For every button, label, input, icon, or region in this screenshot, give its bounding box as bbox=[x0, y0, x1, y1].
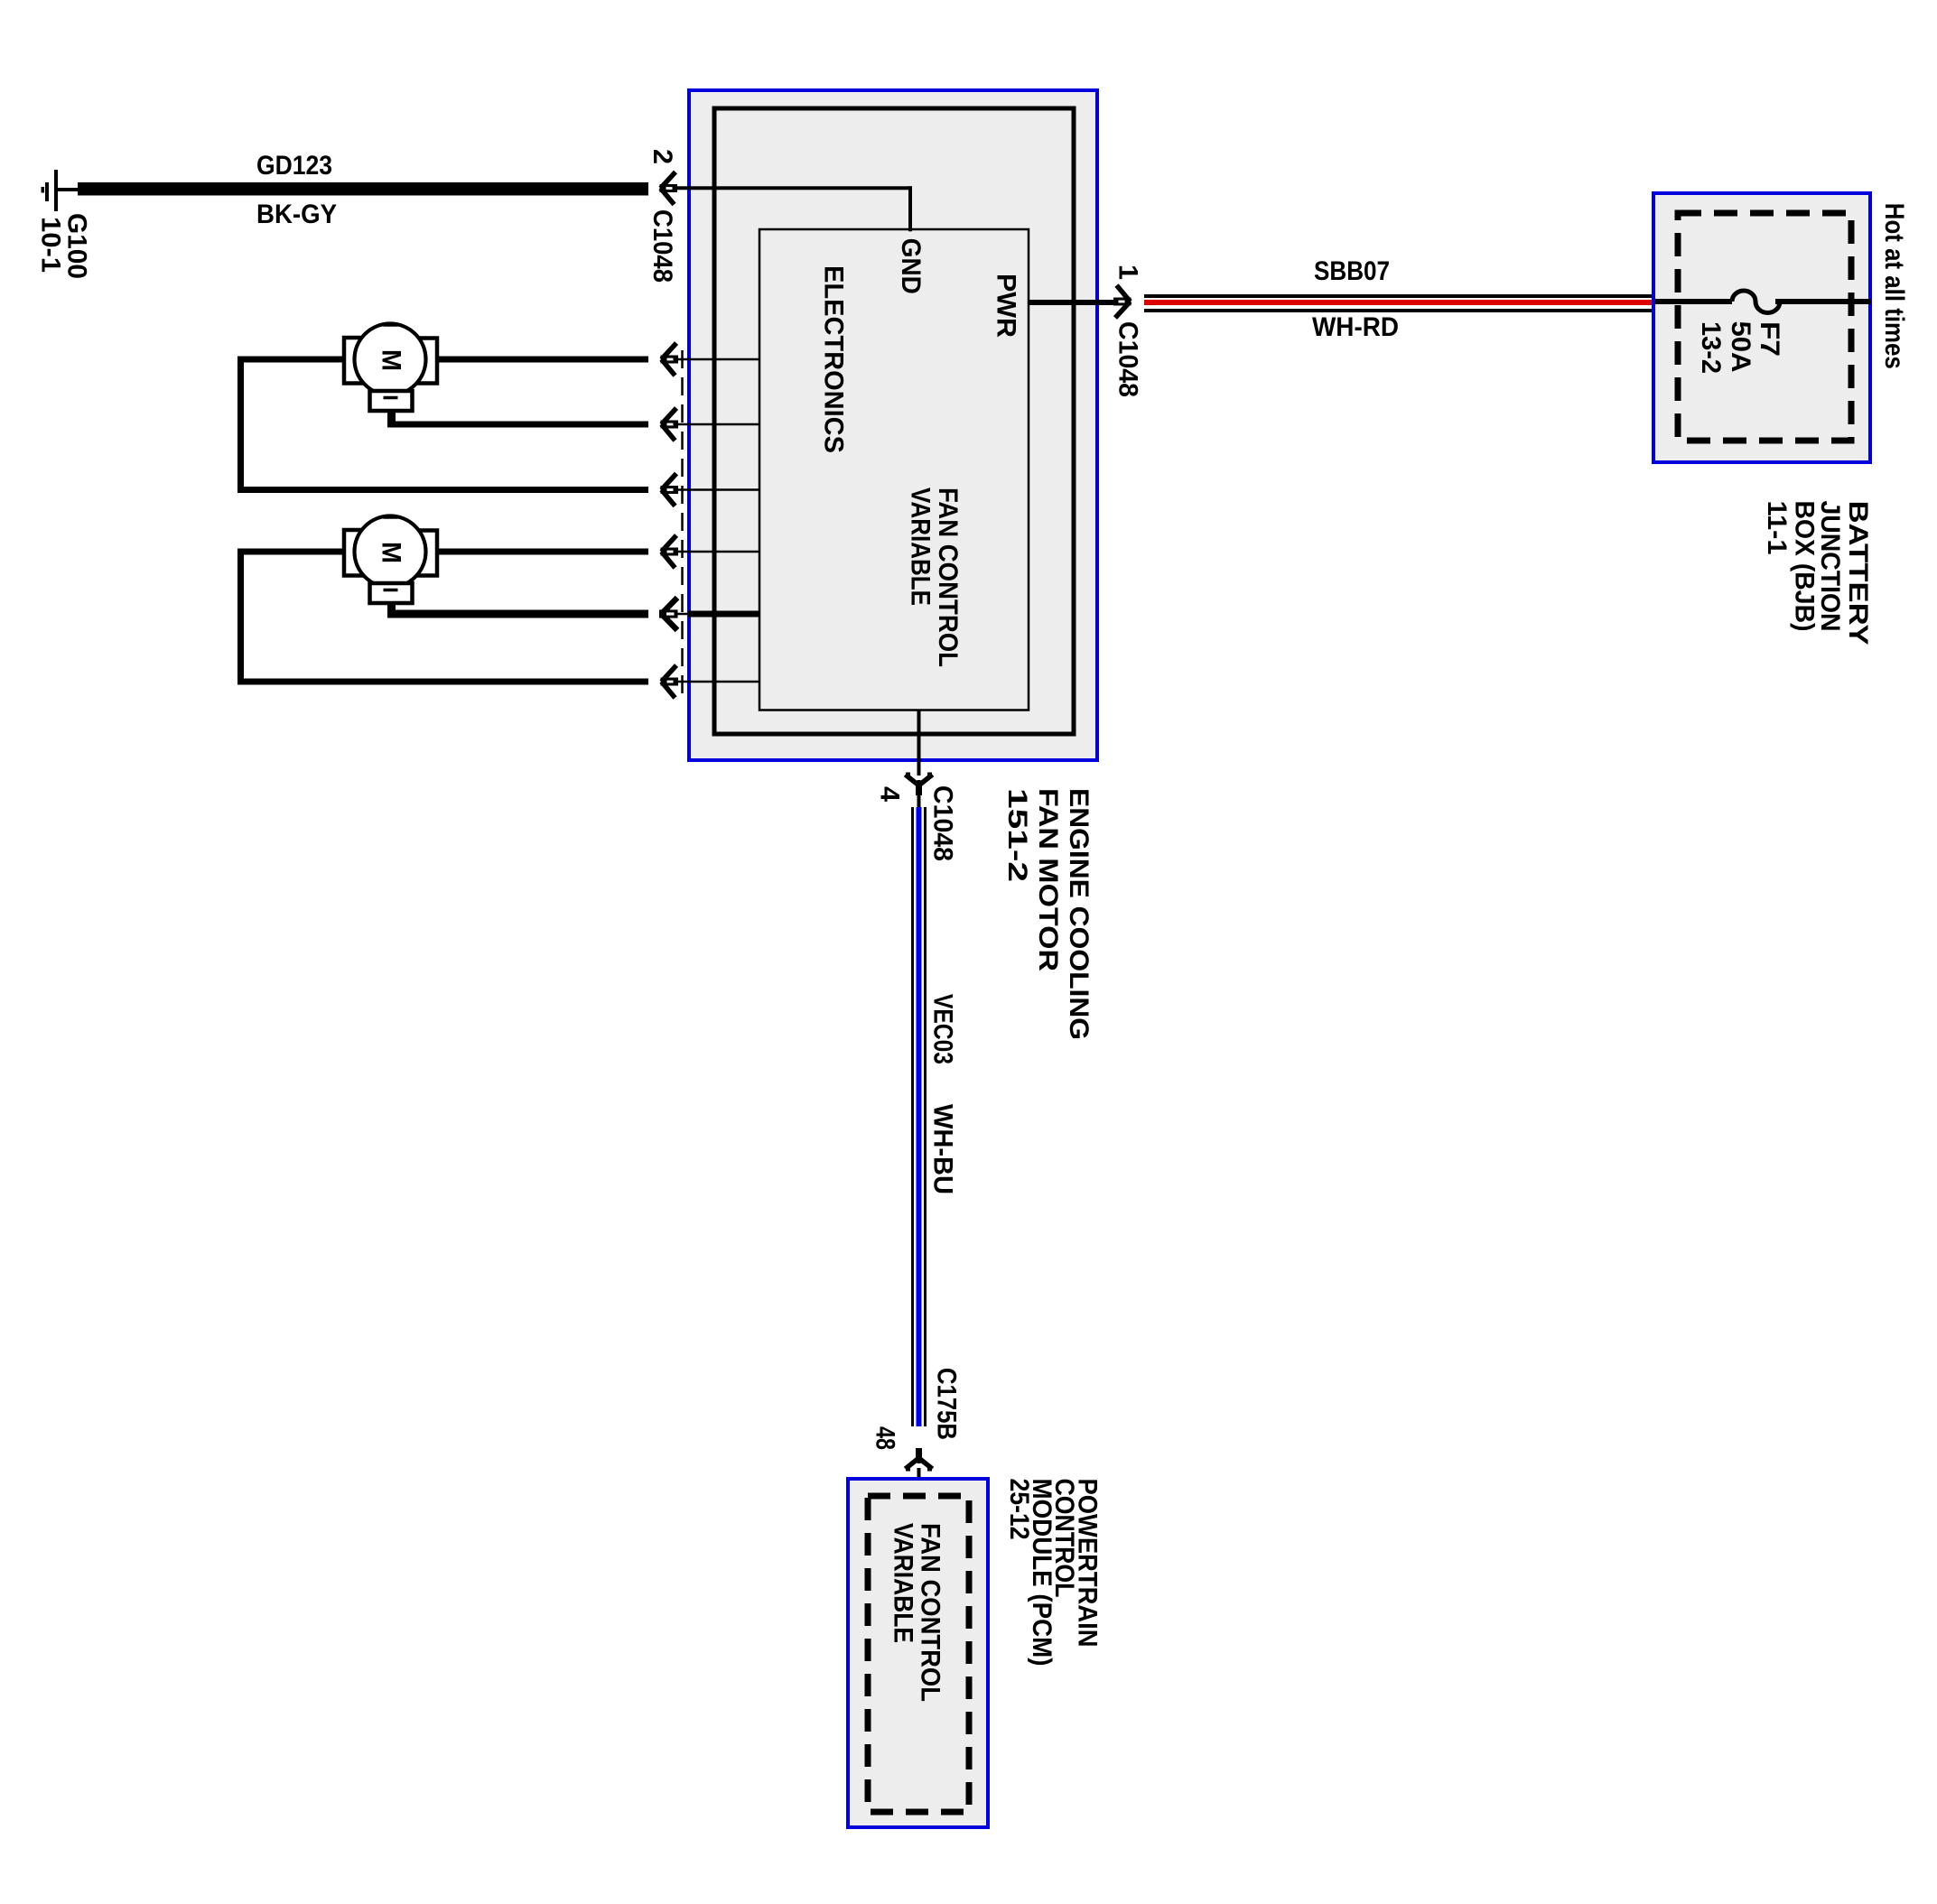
svg-text:ELECTRONICS: ELECTRONICS bbox=[819, 265, 849, 453]
svg-text:C175B: C175B bbox=[932, 1368, 962, 1440]
svg-text:25-12: 25-12 bbox=[1004, 1479, 1034, 1540]
svg-text:FAN CONTROL: FAN CONTROL bbox=[916, 1523, 945, 1702]
svg-text:GD123: GD123 bbox=[256, 151, 332, 181]
svg-text:WH-RD: WH-RD bbox=[1312, 312, 1399, 342]
svg-text:13-2: 13-2 bbox=[1696, 321, 1726, 374]
svg-text:M: M bbox=[377, 542, 406, 563]
svg-text:PWR: PWR bbox=[992, 274, 1021, 338]
svg-text:C1048: C1048 bbox=[647, 209, 677, 283]
svg-text:BOX (BJB): BOX (BJB) bbox=[1790, 501, 1820, 632]
svg-text:F7: F7 bbox=[1755, 321, 1784, 357]
svg-text:VEC03: VEC03 bbox=[928, 994, 958, 1064]
svg-text:SBB07: SBB07 bbox=[1314, 256, 1390, 286]
svg-text:WH-BU: WH-BU bbox=[928, 1104, 958, 1194]
svg-text:48: 48 bbox=[871, 1426, 900, 1450]
svg-text:11-1: 11-1 bbox=[1762, 501, 1792, 555]
svg-text:10-1: 10-1 bbox=[36, 217, 66, 273]
svg-text:2: 2 bbox=[647, 149, 677, 164]
svg-text:Hot at all times: Hot at all times bbox=[1879, 203, 1909, 369]
svg-text:BATTERY: BATTERY bbox=[1843, 501, 1873, 646]
svg-text:VARIABLE: VARIABLE bbox=[889, 1523, 918, 1643]
svg-text:1: 1 bbox=[1113, 265, 1143, 280]
svg-text:FAN CONTROL: FAN CONTROL bbox=[933, 488, 963, 667]
svg-text:ENGINE COOLING: ENGINE COOLING bbox=[1064, 788, 1094, 1040]
svg-text:FAN MOTOR: FAN MOTOR bbox=[1033, 788, 1063, 971]
svg-text:50A: 50A bbox=[1726, 321, 1755, 373]
svg-text:M: M bbox=[377, 349, 406, 371]
svg-text:VARIABLE: VARIABLE bbox=[906, 488, 936, 606]
svg-text:151-2: 151-2 bbox=[1002, 788, 1032, 882]
svg-text:BK-GY: BK-GY bbox=[256, 200, 337, 229]
svg-text:C1048: C1048 bbox=[928, 785, 958, 861]
svg-text:GND: GND bbox=[896, 238, 926, 294]
svg-text:4: 4 bbox=[875, 786, 905, 802]
svg-text:C1048: C1048 bbox=[1113, 321, 1143, 397]
